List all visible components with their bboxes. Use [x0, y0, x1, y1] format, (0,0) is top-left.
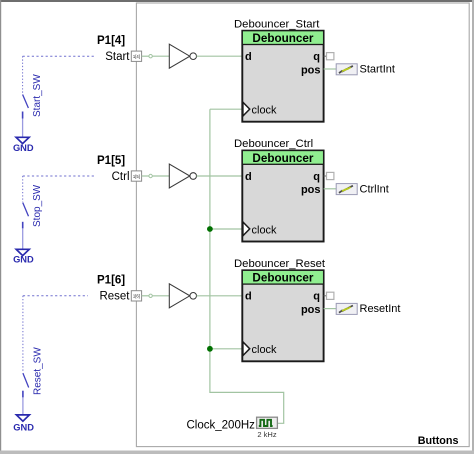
svg-text:Start_SW: Start_SW	[32, 74, 43, 117]
inverter (row 1)	[169, 44, 196, 68]
component CtrlInt (interrupt)	[336, 183, 389, 195]
wire inverter to d (row 2)	[197, 175, 243, 177]
wire inverter to d (row 3)	[197, 295, 243, 297]
component StartInt (interrupt)	[336, 64, 395, 76]
svg-text:Debouncer: Debouncer	[252, 272, 313, 285]
node Ctrl	[112, 171, 130, 183]
junction on clock bus (row 2)	[207, 226, 213, 232]
svg-text:Debouncer: Debouncer	[252, 32, 313, 45]
svg-text:d: d	[245, 291, 252, 303]
svg-text:pos: pos	[301, 184, 321, 196]
svg-text:GND: GND	[13, 143, 34, 153]
svg-text:Debouncer: Debouncer	[252, 152, 313, 165]
svg-text:Clock_200Hz: Clock_200Hz	[187, 419, 256, 431]
pin clock chevron (row 2)	[243, 222, 250, 236]
svg-text:q: q	[313, 291, 320, 303]
sheet Buttons	[136, 3, 469, 447]
ground GND (switch 3)	[13, 415, 34, 433]
component Debouncer_Ctrl	[234, 138, 324, 241]
pin P1[4] symbol	[131, 51, 141, 61]
terminal q (row 3)	[324, 292, 334, 299]
svg-text:P1[5]: P1[5]	[97, 155, 125, 167]
wire pos to CtrlInt	[324, 188, 336, 190]
svg-text:1[6]: 1[6]	[133, 294, 140, 299]
svg-text:GND: GND	[13, 255, 34, 265]
svg-text:Reset_SW: Reset_SW	[32, 347, 43, 395]
wire pin to inverter (row 2)	[142, 174, 169, 177]
svg-text:Ctrl: Ctrl	[112, 171, 130, 183]
svg-text:Debouncer_Start: Debouncer_Start	[234, 18, 320, 30]
wire dashed net Start to switch	[23, 55, 95, 57]
wire pos to ResetInt	[324, 308, 336, 310]
svg-text:StartInt: StartInt	[360, 64, 395, 76]
svg-text:pos: pos	[301, 64, 321, 76]
terminal q (row 1)	[324, 53, 334, 60]
svg-text:CtrlInt: CtrlInt	[360, 183, 389, 195]
pin label P1[5]	[97, 155, 125, 167]
svg-text:P1[6]: P1[6]	[97, 275, 125, 287]
wire pin to inverter (row 3)	[142, 294, 169, 297]
switch Reset_SW	[23, 296, 43, 415]
svg-text:Reset: Reset	[99, 291, 130, 303]
inverter (row 3)	[169, 284, 196, 308]
pin label P1[4]	[97, 35, 125, 47]
svg-text:pos: pos	[301, 304, 321, 316]
switch Stop_SW	[23, 176, 43, 249]
node Start	[105, 51, 130, 63]
svg-text:clock: clock	[252, 105, 278, 117]
wire inverter to d (row 1)	[197, 55, 243, 57]
svg-text:Debouncer_Ctrl: Debouncer_Ctrl	[234, 138, 313, 150]
pin label P1[6]	[97, 275, 125, 287]
wire clock branch to Debouncer_Ctrl	[210, 228, 242, 230]
svg-text:clock: clock	[252, 224, 278, 236]
wire pin to inverter (row 1)	[142, 55, 169, 58]
wire dashed net Reset to switch	[23, 295, 88, 297]
svg-text:d: d	[245, 51, 252, 63]
node Reset	[99, 291, 130, 303]
component Debouncer_Start	[234, 18, 324, 121]
svg-text:GND: GND	[13, 423, 34, 433]
junction on clock bus (row 3)	[207, 346, 213, 352]
wire dashed net Ctrl to switch	[23, 175, 96, 177]
component ResetInt (interrupt)	[336, 303, 400, 315]
svg-text:Start: Start	[105, 51, 130, 63]
pin clock chevron (row 3)	[243, 342, 250, 356]
pin clock chevron (row 1)	[243, 102, 250, 116]
component Debouncer_Reset	[234, 258, 326, 361]
wire pos to StartInt	[324, 68, 336, 70]
svg-text:1[5]: 1[5]	[133, 174, 140, 179]
svg-text:q: q	[313, 51, 320, 63]
svg-text:q: q	[313, 171, 320, 183]
svg-text:P1[4]: P1[4]	[97, 35, 125, 47]
svg-text:clock: clock	[252, 344, 278, 356]
inverter (row 2)	[169, 164, 196, 188]
ground GND (switch 1)	[13, 137, 34, 153]
switch Start_SW	[23, 56, 43, 137]
wire clock branch to Debouncer_Reset	[210, 348, 242, 350]
svg-text:Debouncer_Reset: Debouncer_Reset	[234, 258, 326, 270]
component Clock_200Hz	[187, 417, 278, 439]
wire clock bus vertical	[210, 109, 284, 423]
svg-text:Stop_SW: Stop_SW	[32, 184, 43, 227]
pin P1[5] symbol	[131, 171, 141, 181]
svg-text:Buttons: Buttons	[418, 435, 459, 447]
wire clock branch to Debouncer_Start	[210, 108, 242, 110]
svg-text:d: d	[245, 171, 252, 183]
svg-text:ResetInt: ResetInt	[360, 303, 401, 315]
svg-text:2 kHz: 2 kHz	[257, 430, 276, 439]
ground GND (switch 2)	[13, 249, 34, 264]
pin P1[6] symbol	[131, 291, 141, 301]
svg-text:1[4]: 1[4]	[133, 54, 140, 59]
terminal q (row 2)	[324, 172, 334, 179]
